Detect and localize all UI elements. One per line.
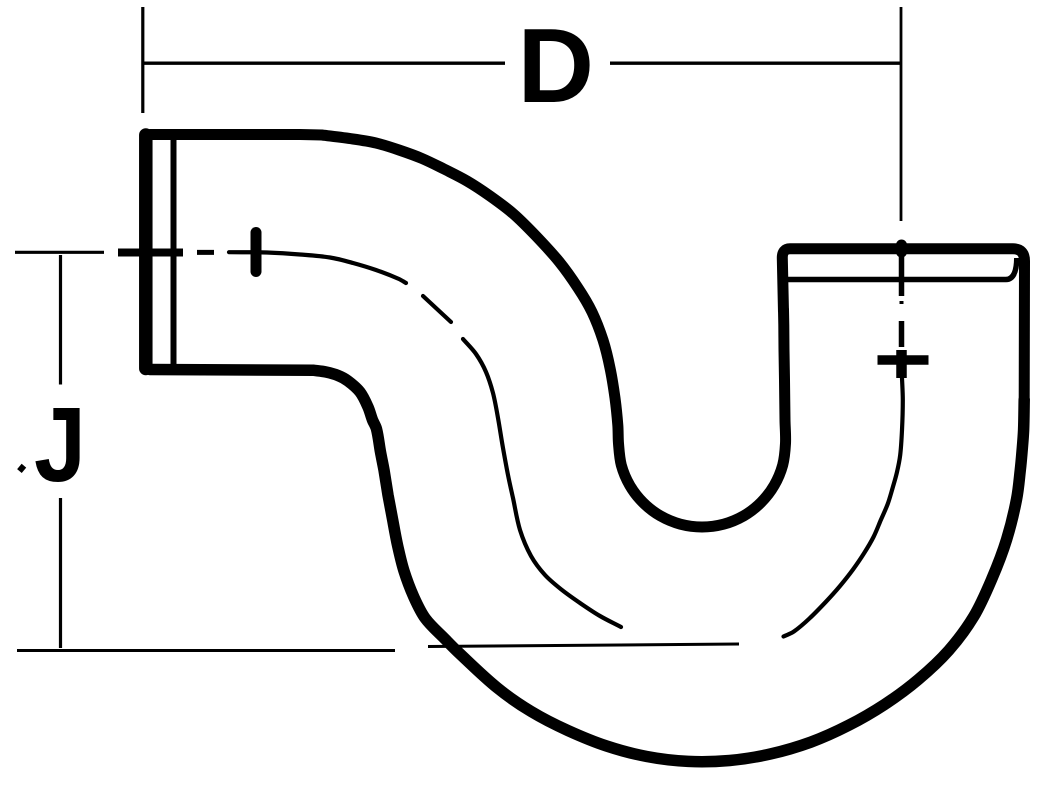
stray ink speck left of J line xyxy=(17,464,26,473)
flow line descending around the bend to trap bottom xyxy=(463,339,621,627)
dimension D: dimension line, right segment xyxy=(610,62,901,65)
outlet centerline: tick crossing hub top band xyxy=(896,245,907,252)
flow line dash segment xyxy=(423,296,451,322)
flow line (inner wall) from inlet curving right, solid part xyxy=(229,252,406,283)
outlet center mark: horizontal crossbar xyxy=(878,355,929,365)
outlet centerline: segment through socket mouth xyxy=(899,256,905,296)
trap body: outer bend outline from outlet down around bottom to inlet underside xyxy=(150,370,1024,762)
flow line (inner wall) on outlet side descending into trap xyxy=(784,378,903,637)
dimension J: dimension line, upper segment xyxy=(59,255,62,385)
svg-text:D: D xyxy=(518,7,595,125)
inlet socket: end face (left edge) xyxy=(139,135,153,369)
inlet socket: inner mouth line (socket depth) xyxy=(171,138,177,367)
outlet center mark: vertical bar xyxy=(896,350,907,378)
outlet socket: inner mouth line (socket depth) xyxy=(787,258,1017,280)
outlet centerline: dash xyxy=(899,321,905,347)
inlet center mark: vertical tick xyxy=(251,233,262,272)
inlet centerline: tick crossing socket end face xyxy=(118,249,183,257)
dimension D: right extension line xyxy=(900,7,903,221)
trap body: top outline from inlet hub around down-bend into inner U and up-leg left edge xyxy=(150,135,786,528)
dimension J: dimension line, lower segment xyxy=(59,498,62,648)
outlet centerline: fading dots xyxy=(900,301,904,304)
svg-text:J: J xyxy=(34,386,86,504)
dimension D: dimension line, left segment xyxy=(143,62,505,65)
inlet centerline: dash xyxy=(197,250,214,255)
dimension J: bottom extension line, left part xyxy=(17,649,395,652)
dimension J: top extension line xyxy=(15,251,104,254)
outlet socket: top band and right edge of hub xyxy=(782,249,1024,400)
dimension D: left extension line xyxy=(141,7,144,113)
dimension J: bottom extension line, right part xyxy=(428,644,739,647)
